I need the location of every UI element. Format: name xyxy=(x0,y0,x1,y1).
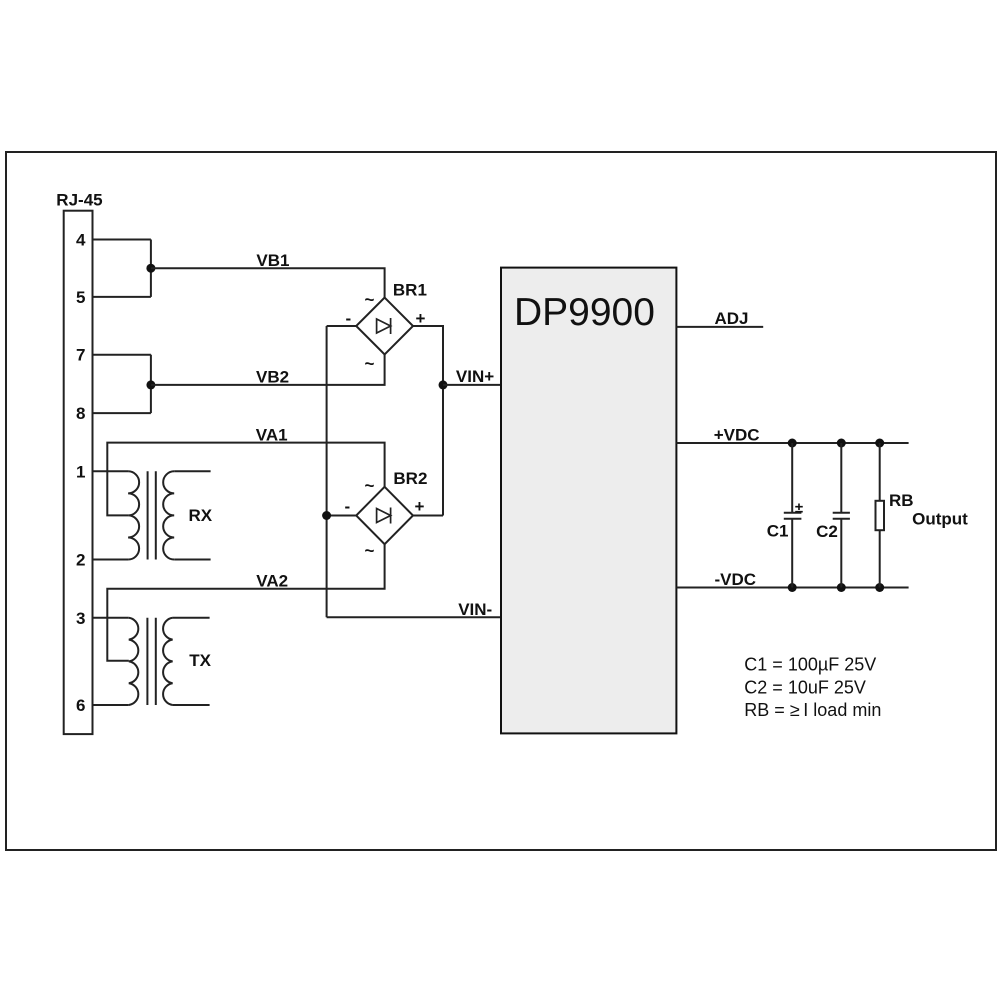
note C1 value xyxy=(744,655,876,675)
node BR2 minus junction xyxy=(322,511,331,520)
pin 5 xyxy=(76,288,151,307)
wire net VA2 xyxy=(107,544,384,661)
node VB2 junction xyxy=(146,380,155,389)
wire net VB1 xyxy=(151,268,385,297)
svg-text:ADJ: ADJ xyxy=(715,309,749,328)
svg-text:5: 5 xyxy=(76,288,85,307)
resistor RB xyxy=(876,443,885,588)
svg-text:TX: TX xyxy=(189,651,211,670)
svg-text:VA2: VA2 xyxy=(256,571,288,590)
node VIN+ junction xyxy=(439,380,448,389)
wire BR2 minus to bus xyxy=(327,515,357,517)
svg-text:RX: RX xyxy=(189,506,213,525)
label BR2 xyxy=(393,469,427,488)
label C1 xyxy=(767,522,789,541)
node RB top junction xyxy=(875,439,884,448)
pin 7 xyxy=(76,346,151,365)
label VB1 xyxy=(256,251,289,270)
wire RX secondary top xyxy=(174,470,210,472)
pin 3 xyxy=(76,609,129,628)
label RJ-45 xyxy=(56,190,102,209)
transformer RX core xyxy=(148,471,156,559)
svg-text:6: 6 xyxy=(76,696,85,715)
bridge rectifier BR2 xyxy=(356,487,413,544)
label -VDC xyxy=(715,570,757,589)
svg-text:VB2: VB2 xyxy=(256,368,289,387)
svg-text:4: 4 xyxy=(76,231,86,250)
capacitor C1 xyxy=(784,443,802,588)
svg-text:+VDC: +VDC xyxy=(714,425,760,444)
svg-text:-: - xyxy=(345,497,351,516)
label BR2 ~ top xyxy=(365,476,375,495)
transformer RX primary winding xyxy=(128,471,139,559)
label Output xyxy=(912,510,968,529)
svg-text:~: ~ xyxy=(365,476,375,495)
transformer TX secondary winding xyxy=(163,618,173,705)
label RX xyxy=(189,506,213,525)
svg-text:VIN+: VIN+ xyxy=(456,367,494,386)
label BR2 ~ bottom xyxy=(365,541,375,560)
label RB xyxy=(889,491,914,510)
svg-text:1: 1 xyxy=(76,462,85,481)
label BR1 ~ bottom xyxy=(365,354,375,373)
svg-text:VB1: VB1 xyxy=(256,251,289,270)
svg-text:VIN-: VIN- xyxy=(458,600,492,619)
note C2 value xyxy=(744,677,866,697)
label BR1 plus xyxy=(416,309,426,328)
wire minus bus vertical xyxy=(326,326,328,617)
wire BR1 plus to right bus xyxy=(413,326,443,516)
svg-text:RB: RB xyxy=(889,491,914,510)
svg-text:7: 7 xyxy=(76,346,85,365)
wire TX secondary bottom xyxy=(173,704,210,706)
wire net -VDC xyxy=(676,587,908,589)
node RB bottom junction xyxy=(875,583,884,592)
transformer RX secondary winding xyxy=(163,471,174,559)
svg-text:~: ~ xyxy=(365,354,375,373)
node C1 top junction xyxy=(788,439,797,448)
svg-text:DP9900: DP9900 xyxy=(514,291,655,334)
label VA1 xyxy=(256,425,288,444)
label BR1 ~ top xyxy=(365,290,375,309)
connector J1 RJ-45 body xyxy=(64,211,93,734)
bridge rectifier BR1 xyxy=(356,298,413,355)
svg-text:RB = ≥ I load min: RB = ≥ I load min xyxy=(744,700,881,720)
svg-text:8: 8 xyxy=(76,404,85,423)
wire BR1 minus to left bus xyxy=(327,325,357,327)
note RB value xyxy=(744,700,881,720)
pin 2 xyxy=(76,551,128,570)
svg-text:C2 = 10uF 25V: C2 = 10uF 25V xyxy=(744,677,866,697)
label BR2 plus xyxy=(415,497,425,516)
svg-text:2: 2 xyxy=(76,551,85,570)
label BR1 minus xyxy=(346,309,352,328)
node C1 bottom junction xyxy=(788,583,797,592)
label VIN+ xyxy=(456,367,494,386)
pin 8 xyxy=(76,404,151,423)
label +VDC xyxy=(714,425,760,444)
wire net +VDC xyxy=(676,442,908,444)
wire pins 7-8 join xyxy=(150,355,152,413)
svg-text:C2: C2 xyxy=(816,522,838,541)
svg-text:Output: Output xyxy=(912,510,968,529)
node C2 top junction xyxy=(837,439,846,448)
label BR1 xyxy=(393,280,427,299)
transformer TX primary winding xyxy=(129,618,139,705)
svg-text:BR2: BR2 xyxy=(393,469,427,488)
label VB2 xyxy=(256,368,289,387)
svg-text:~: ~ xyxy=(365,541,375,560)
pin 4 xyxy=(76,231,151,250)
label C1 polarity xyxy=(795,500,803,517)
wire BR2 plus to bus xyxy=(413,515,443,517)
svg-text:RJ-45: RJ-45 xyxy=(56,190,102,209)
node C2 bottom junction xyxy=(837,583,846,592)
label VA2 xyxy=(256,571,288,590)
svg-text:+: + xyxy=(415,497,425,516)
svg-text:-VDC: -VDC xyxy=(715,570,757,589)
pin 6 xyxy=(76,696,129,715)
capacitor C2 xyxy=(833,443,850,588)
wire net VIN- xyxy=(327,616,501,618)
label TX xyxy=(189,651,211,670)
wire net VB2 xyxy=(151,354,385,385)
label ADJ xyxy=(715,309,749,328)
IC U1 DP9900 xyxy=(501,268,676,734)
svg-text:VA1: VA1 xyxy=(256,425,288,444)
label VIN- xyxy=(458,600,492,619)
wire pins 4-5 join xyxy=(150,240,152,297)
svg-text:±: ± xyxy=(795,500,803,517)
svg-text:3: 3 xyxy=(76,609,85,628)
wire TX secondary top xyxy=(173,617,210,619)
transformer TX core xyxy=(147,618,155,705)
svg-text:C1: C1 xyxy=(767,522,789,541)
wire RX secondary bottom xyxy=(174,559,210,561)
pin 1 xyxy=(76,462,128,481)
wire net ADJ xyxy=(676,326,763,328)
svg-text:C1 = 100µF 25V: C1 = 100µF 25V xyxy=(744,655,876,675)
wire net VIN+ xyxy=(443,384,501,386)
label C2 xyxy=(816,522,838,541)
node VB1 junction xyxy=(146,264,155,273)
wire net VA1 xyxy=(107,443,384,516)
label BR2 minus xyxy=(345,497,351,516)
svg-text:BR1: BR1 xyxy=(393,280,427,299)
svg-text:~: ~ xyxy=(365,290,375,309)
